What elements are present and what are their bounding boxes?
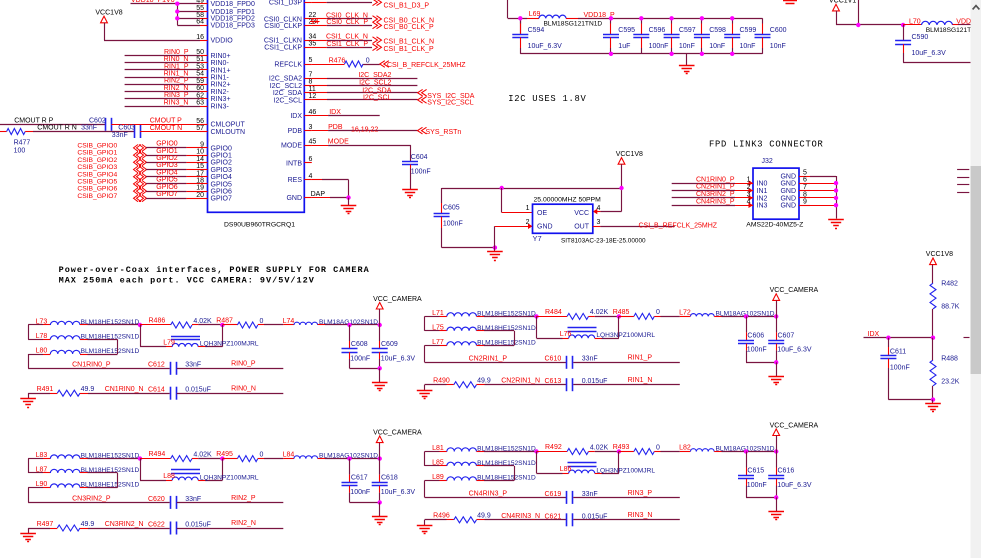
svg-text:CSIB_GPIO1: CSIB_GPIO1 <box>77 150 117 157</box>
svg-text:RIN0_N: RIN0_N <box>231 385 256 392</box>
capacitor C615 <box>746 452 748 468</box>
svg-text:C614: C614 <box>148 387 165 394</box>
svg-text:L88: L88 <box>163 473 175 480</box>
wire fragment right edge <box>957 184 969 186</box>
connector J32 pin 3 IN2 <box>735 197 753 199</box>
svg-text:IN0: IN0 <box>757 181 768 188</box>
svg-text:C615: C615 <box>747 468 764 475</box>
svg-text:R482: R482 <box>941 281 958 288</box>
svg-text:CSI1_CLK_N: CSI1_CLK_N <box>326 34 368 41</box>
svg-text:10: 10 <box>196 149 204 156</box>
junction IDX node <box>931 336 935 340</box>
wire input bus lower <box>28 354 30 368</box>
svg-text:SIT8103AC-23-18E-25.00000: SIT8103AC-23-18E-25.00000 <box>561 237 646 244</box>
svg-text:CMLOUTN: CMLOUTN <box>211 129 246 136</box>
resistor R491 <box>28 393 50 395</box>
svg-text:I2C_SDA: I2C_SDA <box>362 87 392 94</box>
svg-text:100nF: 100nF <box>747 482 767 489</box>
IC pin 46 IDX <box>304 115 312 117</box>
svg-text:C600: C600 <box>770 27 787 34</box>
wire VDD stub <box>177 11 200 13</box>
junction J32 gnd <box>834 203 838 207</box>
wire R482 to node <box>932 309 934 338</box>
IC pin 17 GPIO4 <box>200 176 208 178</box>
IC pin GND <box>304 197 312 199</box>
IC pin 34 CSI1_CLKN <box>304 40 312 42</box>
svg-text:L80: L80 <box>36 348 48 355</box>
junction cap bank top <box>669 16 673 20</box>
svg-text:GND: GND <box>780 173 796 180</box>
ground N input <box>28 393 30 399</box>
svg-text:64: 64 <box>196 19 204 26</box>
connector J32 pin 1 IN0 <box>735 183 753 185</box>
svg-text:RIN1_N: RIN1_N <box>164 71 189 78</box>
svg-text:C607: C607 <box>778 332 795 339</box>
svg-text:CSIB_GPIO0: CSIB_GPIO0 <box>77 143 117 150</box>
svg-text:BLM18SG121TN1D: BLM18SG121TN1D <box>544 20 603 27</box>
svg-text:CSIB_GPIO7: CSIB_GPIO7 <box>77 193 117 200</box>
svg-text:R495: R495 <box>216 451 233 458</box>
svg-text:CSIB_GPIO5: CSIB_GPIO5 <box>77 179 117 186</box>
svg-text:GPIO4: GPIO4 <box>156 169 178 176</box>
junction cap bank bottom <box>730 52 734 56</box>
wire net CN1RIN0_P <box>28 368 170 370</box>
resistor R497 <box>28 528 50 530</box>
svg-text:RIN2_P: RIN2_P <box>164 78 189 85</box>
svg-text:GPIO0: GPIO0 <box>156 141 178 148</box>
svg-text:RIN1+: RIN1+ <box>211 67 231 74</box>
ground IDX divider <box>925 403 941 405</box>
resistor R490 <box>425 384 447 386</box>
svg-text:19: 19 <box>196 185 204 192</box>
svg-text:100nF: 100nF <box>350 355 370 362</box>
svg-text:CN2RIN1_N: CN2RIN1_N <box>501 378 540 385</box>
svg-text:CSI0_CLKP: CSI0_CLKP <box>264 23 302 30</box>
svg-text:I2C_SCL: I2C_SCL <box>363 95 392 102</box>
wire net RIN1_P <box>125 69 200 71</box>
capacitor C594 <box>520 18 522 23</box>
wire net CN4RIN3_P <box>672 205 735 207</box>
svg-text:LQH3NPZ100MJRL: LQH3NPZ100MJRL <box>596 467 655 474</box>
IC pin 14 GPIO2 <box>200 162 208 164</box>
wire net RIN3_N <box>573 519 680 521</box>
wire VDD bus vertical <box>177 4 179 25</box>
connector J32 pin 5 GND <box>799 176 810 178</box>
wire C605 bottom <box>442 247 495 249</box>
svg-text:16: 16 <box>196 34 204 41</box>
svg-text:56: 56 <box>196 118 204 125</box>
junction VCC node <box>378 456 382 460</box>
svg-text:GPIO1: GPIO1 <box>211 153 233 160</box>
svg-text:RIN0_N: RIN0_N <box>164 56 189 63</box>
capacitor C602 <box>105 118 107 131</box>
capacitor C598 <box>701 18 703 23</box>
svg-text:1: 1 <box>747 177 751 184</box>
junction DAP node <box>346 195 350 199</box>
wire input bus upper <box>424 316 426 330</box>
svg-text:L79: L79 <box>163 339 175 346</box>
net CSI_B1_D3_P row <box>312 2 327 4</box>
capacitor C606 <box>746 316 748 332</box>
svg-text:33nF: 33nF <box>185 496 201 503</box>
junction GND branch <box>493 245 497 249</box>
svg-text:0: 0 <box>260 318 264 325</box>
ferrite bead L69 <box>527 18 539 20</box>
wire VCC1V8 to VCC pin <box>621 164 623 211</box>
svg-text:C598: C598 <box>709 27 726 34</box>
svg-text:R476: R476 <box>329 57 346 64</box>
svg-text:R490: R490 <box>433 378 450 385</box>
svg-text:VCC1V1: VCC1V1 <box>829 0 856 4</box>
svg-text:LQH3NPZ100MJRL: LQH3NPZ100MJRL <box>596 332 655 339</box>
svg-text:2: 2 <box>526 219 530 226</box>
svg-text:GPIO7: GPIO7 <box>211 196 233 203</box>
svg-text:0: 0 <box>366 57 370 64</box>
capacitor C609 <box>379 325 381 341</box>
IC U1 DS90UB960TRGCRQ1 body <box>208 0 305 212</box>
svg-text:14: 14 <box>311 19 319 26</box>
svg-text:C606: C606 <box>747 332 764 339</box>
wire row1 to node <box>484 316 537 318</box>
svg-text:Y7: Y7 <box>533 234 542 243</box>
svg-text:CMLOPUT: CMLOPUT <box>211 122 246 129</box>
svg-text:L84: L84 <box>283 452 295 459</box>
svg-text:I2C_SDA: I2C_SDA <box>273 90 303 97</box>
svg-text:CN2RIN1_P: CN2RIN1_P <box>696 184 735 191</box>
svg-text:CN1RIN0_N: CN1RIN0_N <box>105 386 144 393</box>
svg-text:0: 0 <box>656 309 660 316</box>
svg-text:CN3RIN2_N: CN3RIN2_N <box>105 521 144 528</box>
IC pin 64 VDD18_FPD3 <box>200 25 208 27</box>
svg-text:VCC_CAMERA: VCC_CAMERA <box>373 296 422 303</box>
wire VCC1V8 down <box>932 265 934 284</box>
capacitor C608 <box>349 325 351 341</box>
svg-text:GPIO2: GPIO2 <box>156 155 178 162</box>
ferrite bead L70 <box>903 24 921 26</box>
junction J32 gnd <box>834 188 838 192</box>
IC pin 20 GPIO7 <box>200 198 208 200</box>
svg-text:100nF: 100nF <box>350 489 370 496</box>
IC pin 5 REFCLK <box>304 64 312 66</box>
svg-text:33nF: 33nF <box>81 125 97 132</box>
svg-text:L86: L86 <box>560 466 572 473</box>
wire net RIN2_P <box>177 502 283 504</box>
svg-text:L76: L76 <box>560 331 572 338</box>
junction VCC node <box>774 314 778 318</box>
svg-text:33nF: 33nF <box>112 132 128 139</box>
svg-text:MAX 250mA each port. VCC CAMER: MAX 250mA each port. VCC CAMERA: 9V/5V/1… <box>59 275 315 285</box>
svg-text:VCC: VCC <box>574 210 589 217</box>
IC pin 22 CSI0_CLKN <box>304 18 312 20</box>
wire VCC1V8 to VDDIO <box>104 23 106 41</box>
svg-text:INTB: INTB <box>286 160 302 167</box>
wire input bus upper <box>28 325 30 339</box>
svg-text:46: 46 <box>309 109 317 116</box>
junction caps ground <box>378 500 382 504</box>
svg-text:CMOUT R P: CMOUT R P <box>14 118 53 125</box>
svg-text:10uF_6.3V: 10uF_6.3V <box>381 489 416 496</box>
net CSI_B1_CLK_P row <box>312 47 327 49</box>
svg-text:3: 3 <box>309 124 313 131</box>
wire row2/row3 join <box>484 465 514 467</box>
IC pin 59 RIN2+ <box>200 84 208 86</box>
svg-text:RIN2_N: RIN2_N <box>164 85 189 92</box>
svg-text:OE: OE <box>537 210 547 217</box>
svg-text:GPIO4: GPIO4 <box>211 174 233 181</box>
svg-text:CSI_B1_CLK_P: CSI_B1_CLK_P <box>384 46 435 53</box>
junction node B <box>220 323 224 327</box>
svg-text:4: 4 <box>597 205 601 212</box>
IC pin 18 GPIO5 <box>200 183 208 185</box>
svg-text:CSIB_GPIO6: CSIB_GPIO6 <box>77 186 117 193</box>
net SYS_RSTn (PDB) row <box>312 130 328 132</box>
IC pin 8 I2C_SCL2 <box>304 85 312 87</box>
svg-text:L69: L69 <box>529 11 541 18</box>
svg-text:RIN3_P: RIN3_P <box>628 490 653 497</box>
ground C604 <box>402 189 418 191</box>
svg-text:RIN2+: RIN2+ <box>211 82 231 89</box>
wire VDD18 rail from top <box>507 0 509 18</box>
svg-text:49.9: 49.9 <box>81 386 95 393</box>
svg-text:16,19,22: 16,19,22 <box>351 127 378 134</box>
svg-text:GND: GND <box>780 181 796 188</box>
svg-text:CN1RIN0_P: CN1RIN0_P <box>72 362 111 369</box>
svg-text:LQH3NPZ100MJRL: LQH3NPZ100MJRL <box>200 341 259 348</box>
capacitor C607 <box>776 316 778 332</box>
junction VDD bus <box>175 9 179 13</box>
resistor R492 <box>537 451 568 453</box>
connector J32 pin 2 IN1 <box>735 190 753 192</box>
capacitor C622 <box>170 522 172 535</box>
junction J32 gnd <box>834 196 838 200</box>
junction cap A <box>347 456 351 460</box>
wire net RIN2_N <box>177 528 283 530</box>
svg-text:23.2K: 23.2K <box>941 378 960 385</box>
junction node B <box>220 456 224 460</box>
svg-text:AMS22D-40MZ5-Z: AMS22D-40MZ5-Z <box>746 221 803 228</box>
ground VCC_CAMERA caps <box>372 382 388 384</box>
connector J32 body <box>753 168 799 219</box>
wire input bus lower <box>424 481 426 498</box>
svg-text:C602: C602 <box>89 118 106 125</box>
svg-text:DS90UB960TRGCRQ1: DS90UB960TRGCRQ1 <box>224 222 295 229</box>
svg-text:4: 4 <box>309 173 313 180</box>
svg-text:100nF: 100nF <box>747 347 767 354</box>
resistor R496 <box>425 519 447 521</box>
svg-text:34: 34 <box>309 33 317 40</box>
wire net RIN0_P <box>177 368 283 370</box>
wire C605 top rail <box>442 188 622 190</box>
connector J32 pin 9 GND <box>799 205 810 207</box>
svg-text:100nF: 100nF <box>443 221 463 228</box>
svg-text:GND: GND <box>286 195 302 202</box>
wire VDD stub <box>177 18 200 20</box>
capacitor C613 <box>566 378 568 391</box>
wire row2/row3 join <box>88 339 118 341</box>
wire row2/row3 join <box>88 472 118 474</box>
capacitor C597 <box>671 18 673 23</box>
wire C590 bottom <box>903 62 970 64</box>
scrollbar up arrow <box>973 6 980 10</box>
svg-text:7: 7 <box>803 184 807 191</box>
wire net CN1RIN0_P <box>672 183 735 185</box>
junction VCC node <box>378 323 382 327</box>
junction VDD bus <box>175 2 179 6</box>
wire MODE down to C604 <box>410 145 412 161</box>
IC pin 16 VDDIO <box>200 40 208 42</box>
svg-text:1: 1 <box>526 205 530 212</box>
IC pin 3 PDB <box>304 130 312 132</box>
svg-text:L71: L71 <box>432 310 444 317</box>
svg-text:VCC1V8: VCC1V8 <box>95 10 122 17</box>
svg-text:CSI1_D3P: CSI1_D3P <box>269 0 302 7</box>
wire net RIN0_P <box>125 55 200 57</box>
svg-text:GPIO7: GPIO7 <box>156 191 178 198</box>
svg-text:RIN3_N: RIN3_N <box>628 512 653 519</box>
svg-text:C617: C617 <box>351 475 368 482</box>
wire VDD18_P top rail <box>578 18 763 20</box>
svg-text:5: 5 <box>309 57 313 64</box>
svg-text:R484: R484 <box>545 309 562 316</box>
wire CMOUT R N row <box>0 131 7 133</box>
svg-text:C611: C611 <box>890 349 906 356</box>
svg-text:63: 63 <box>196 100 204 107</box>
IC pin 49 VDD18_FPD0 <box>200 3 208 5</box>
svg-text:R486: R486 <box>149 318 166 325</box>
svg-text:CMOUT R N: CMOUT R N <box>37 125 77 132</box>
IC pin 6 INTB <box>304 162 312 164</box>
wire input bus upper <box>424 452 426 466</box>
junction cap bank top <box>609 16 613 20</box>
wire net CN2RIN1_P <box>425 362 567 364</box>
svg-text:54: 54 <box>196 71 204 78</box>
svg-text:CN4RIN3_P: CN4RIN3_P <box>696 198 735 205</box>
wire net RIN0_N <box>125 62 200 64</box>
svg-text:CSI1_CLK_P: CSI1_CLK_P <box>326 41 368 48</box>
IC pin 12 I2C_SCL <box>304 99 312 101</box>
svg-text:7: 7 <box>309 72 313 79</box>
wire CMOUT R P row <box>0 124 105 126</box>
svg-text:L72: L72 <box>679 309 691 316</box>
junction caps ground <box>774 360 778 364</box>
svg-text:CSIB_GPIO3: CSIB_GPIO3 <box>77 164 117 171</box>
svg-text:CSI_B1_CLK_N: CSI_B1_CLK_N <box>384 39 435 46</box>
svg-text:4.02K: 4.02K <box>590 444 609 451</box>
junction cap A <box>744 449 748 453</box>
svg-text:C596: C596 <box>649 27 666 34</box>
svg-text:GND: GND <box>780 195 796 202</box>
svg-text:C622: C622 <box>148 522 165 529</box>
wire net RIN1_N <box>573 384 680 386</box>
svg-text:GPIO6: GPIO6 <box>211 189 233 196</box>
svg-text:0.015uF: 0.015uF <box>185 387 211 394</box>
junction VCC rail <box>619 186 623 190</box>
junction cap bank top <box>518 16 522 20</box>
junction cap bank top <box>700 16 704 20</box>
svg-text:CN3RIN2_P: CN3RIN2_P <box>72 496 111 503</box>
svg-text:GPIO3: GPIO3 <box>156 162 178 169</box>
svg-text:10uF_6.3V: 10uF_6.3V <box>777 347 812 354</box>
junction OE branch <box>500 186 504 190</box>
svg-text:RIN1-: RIN1- <box>211 75 230 82</box>
inductor L88 <box>140 459 142 481</box>
net RES to ground <box>312 179 322 181</box>
svg-text:20: 20 <box>196 192 204 199</box>
svg-text:CSI_B1_D3_P: CSI_B1_D3_P <box>384 2 430 9</box>
svg-text:RIN0+: RIN0+ <box>211 53 231 60</box>
svg-text:CSI1_CLKN: CSI1_CLKN <box>264 38 302 45</box>
svg-text:R496: R496 <box>433 513 450 520</box>
junction node A <box>534 314 538 318</box>
svg-text:C597: C597 <box>679 27 696 34</box>
net I2C_SDA2 row <box>312 78 327 80</box>
capacitor C603 <box>134 125 136 138</box>
svg-text:100nF: 100nF <box>890 364 910 371</box>
svg-text:6: 6 <box>309 156 313 163</box>
junction VCC node <box>774 449 778 453</box>
capacitor C621 <box>566 513 568 526</box>
capacitor C617 <box>349 459 351 475</box>
IC pin 58 VDD18_FPD2 <box>200 18 208 20</box>
net CSI_B_REFCLK_25MHZ from OUT <box>593 226 601 228</box>
svg-text:C603: C603 <box>118 125 135 132</box>
wire bottom rail of cap bank <box>520 18 522 34</box>
svg-text:RIN3+: RIN3+ <box>211 96 231 103</box>
wire VCC1V1 rail <box>836 11 838 25</box>
ground cap bank <box>686 54 688 66</box>
svg-text:RIN3_N: RIN3_N <box>164 99 189 106</box>
svg-text:10uF_6.3V: 10uF_6.3V <box>381 355 416 362</box>
svg-text:Power-over-Coax interfaces, PO: Power-over-Coax interfaces, POWER SUPPLY… <box>59 265 370 275</box>
svg-text:SYS_I2C_SCL: SYS_I2C_SCL <box>427 99 473 106</box>
svg-text:VCC_CAMERA: VCC_CAMERA <box>373 429 422 436</box>
junction node A <box>534 449 538 453</box>
svg-text:GND: GND <box>780 188 796 195</box>
svg-text:RIN2-: RIN2- <box>211 89 230 96</box>
svg-text:RIN3-: RIN3- <box>211 103 230 110</box>
capacitor C620 <box>170 496 172 509</box>
svg-text:2: 2 <box>747 184 751 191</box>
wire net RIN3_N <box>125 106 200 108</box>
wire VDD stub <box>177 25 200 27</box>
ground fragment top edge <box>783 0 797 2</box>
resistor R494 <box>140 458 171 460</box>
svg-text:VCC_CAMERA: VCC_CAMERA <box>770 287 819 294</box>
svg-text:I2C USES 1.8V: I2C USES 1.8V <box>508 94 586 104</box>
capacitor C611 <box>888 338 890 347</box>
svg-text:R487: R487 <box>216 318 233 325</box>
capacitor C600 <box>762 18 764 23</box>
wire GND branch up <box>494 226 496 247</box>
svg-text:MODE: MODE <box>328 139 349 146</box>
IC pin 23 CSI0_CLKP <box>304 25 312 27</box>
wire fragment right edge <box>957 177 969 179</box>
net SYS_I2C_SCL row <box>312 99 327 101</box>
junction C590 node <box>901 23 905 27</box>
svg-text:4.02K: 4.02K <box>193 318 212 325</box>
resistor R486 <box>140 324 171 326</box>
svg-text:RIN1_P: RIN1_P <box>628 355 653 362</box>
junction cap A <box>347 323 351 327</box>
junction VCC1V1 rail <box>856 23 860 27</box>
capacitor C590 <box>903 25 905 41</box>
svg-text:GND: GND <box>780 203 796 210</box>
svg-text:45: 45 <box>309 138 317 145</box>
svg-text:IN1: IN1 <box>757 188 768 195</box>
wire net CN3RIN2_P <box>672 197 735 199</box>
svg-text:CSI_B0_CLK_P: CSI_B0_CLK_P <box>384 24 435 31</box>
wire caps bottom rail <box>746 362 776 364</box>
